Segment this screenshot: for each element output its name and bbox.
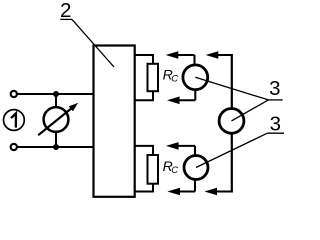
radiation arrow bottom D (from rail)	[204, 188, 233, 196]
resistor RC2	[148, 155, 159, 184]
wire meter bottom lead	[55, 132, 57, 147]
label 3 upper shelf	[268, 99, 282, 101]
lamp H3 circle	[184, 156, 208, 180]
radiation arrow top B (from rail)	[206, 51, 232, 59]
wire meter top lead	[55, 94, 57, 108]
radiation arrow top C (lamp H3 to RC2)	[166, 142, 195, 156]
wire right rail upper	[231, 54, 233, 109]
meter G1 adjust arrow	[38, 103, 78, 135]
radiation arrow top A (lamp H1 to RC1)	[166, 51, 195, 65]
wire bottom-left	[17, 146, 93, 148]
svg-text:3: 3	[270, 112, 281, 135]
radiation arrow bottom C (lamp H3 to RC2)	[167, 179, 195, 195]
label 3 upper leader to lamp H2	[232, 100, 269, 121]
node junction bottom	[53, 144, 59, 150]
svg-text:3: 3	[269, 77, 280, 100]
radiation arrow bottom A (lamp H1 to RC1)	[167, 90, 195, 104]
resistor RC1	[148, 64, 159, 91]
svg-text:C: C	[171, 74, 178, 85]
wire resistor RC2 bottom lead	[135, 184, 153, 192]
lamp H1 circle	[183, 65, 208, 90]
label 1	[11, 113, 16, 127]
meter G1 circle	[44, 107, 69, 132]
node junction top	[53, 91, 59, 97]
block U (converter) rectangle	[94, 46, 135, 197]
wire resistor RC1 bottom lead	[135, 91, 153, 100]
wire right rail lower	[231, 133, 233, 191]
terminal top-left	[11, 91, 17, 97]
wire bottom stub to resistor RC2	[135, 146, 153, 155]
wire top stub to resistor RC1	[135, 55, 153, 64]
wire top-left	[17, 93, 93, 95]
node label 1 circle	[4, 110, 25, 131]
label 3 lower shelf	[267, 132, 284, 134]
label 2 leader line	[72, 19, 114, 67]
svg-text:2: 2	[60, 0, 71, 22]
label 2 leader shelf	[60, 18, 72, 20]
label 3 lower leader to lamp H3	[196, 133, 267, 167]
terminal bottom-left	[11, 144, 17, 150]
label 3 upper leader to lamp H1	[195, 77, 268, 100]
lamp H2 circle (middle)	[219, 109, 244, 134]
svg-text:C: C	[171, 165, 178, 176]
